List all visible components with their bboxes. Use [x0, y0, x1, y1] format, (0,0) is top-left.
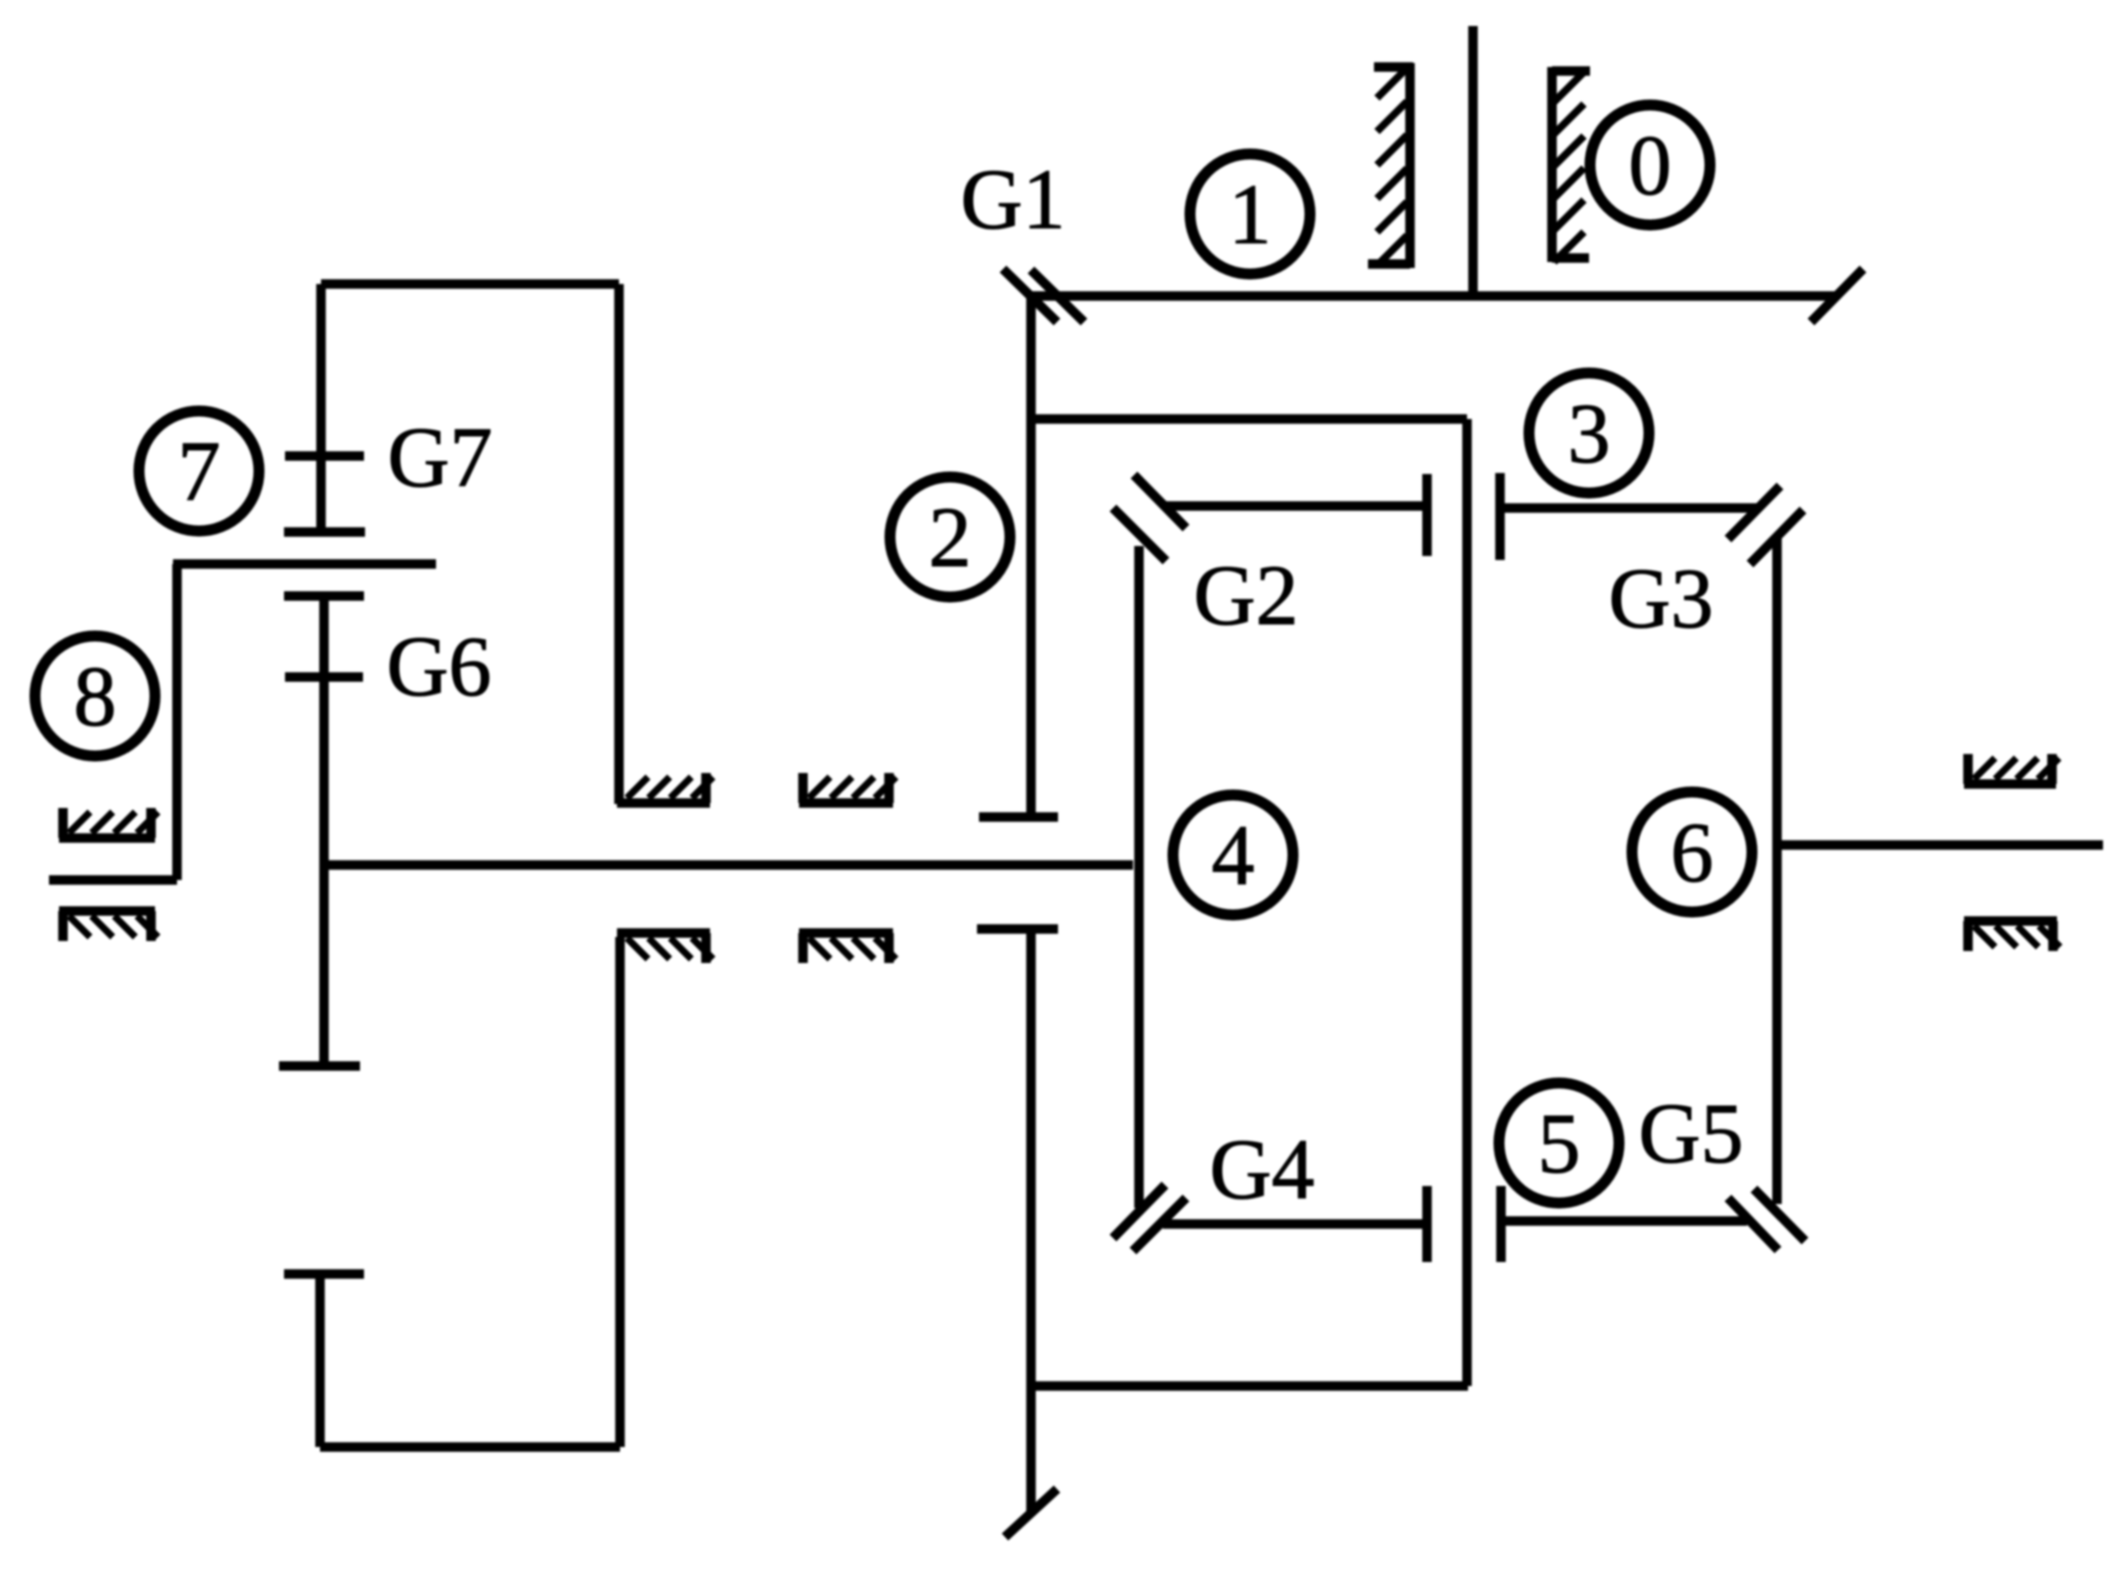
svg-text:7: 7 — [178, 423, 221, 519]
svg-text:4: 4 — [1212, 807, 1255, 903]
svg-text:6: 6 — [1671, 804, 1714, 900]
svg-text:G1: G1 — [960, 151, 1065, 247]
svg-text:2: 2 — [929, 489, 972, 585]
svg-text:G2: G2 — [1193, 547, 1298, 643]
svg-text:3: 3 — [1568, 385, 1611, 481]
svg-text:G3: G3 — [1608, 550, 1713, 646]
svg-text:G5: G5 — [1638, 1085, 1743, 1181]
svg-text:G6: G6 — [386, 618, 491, 714]
svg-text:8: 8 — [74, 648, 117, 744]
svg-text:0: 0 — [1629, 117, 1672, 213]
svg-text:G7: G7 — [387, 409, 492, 505]
svg-text:G4: G4 — [1209, 1121, 1314, 1217]
svg-text:5: 5 — [1538, 1095, 1581, 1191]
svg-text:1: 1 — [1229, 166, 1272, 262]
